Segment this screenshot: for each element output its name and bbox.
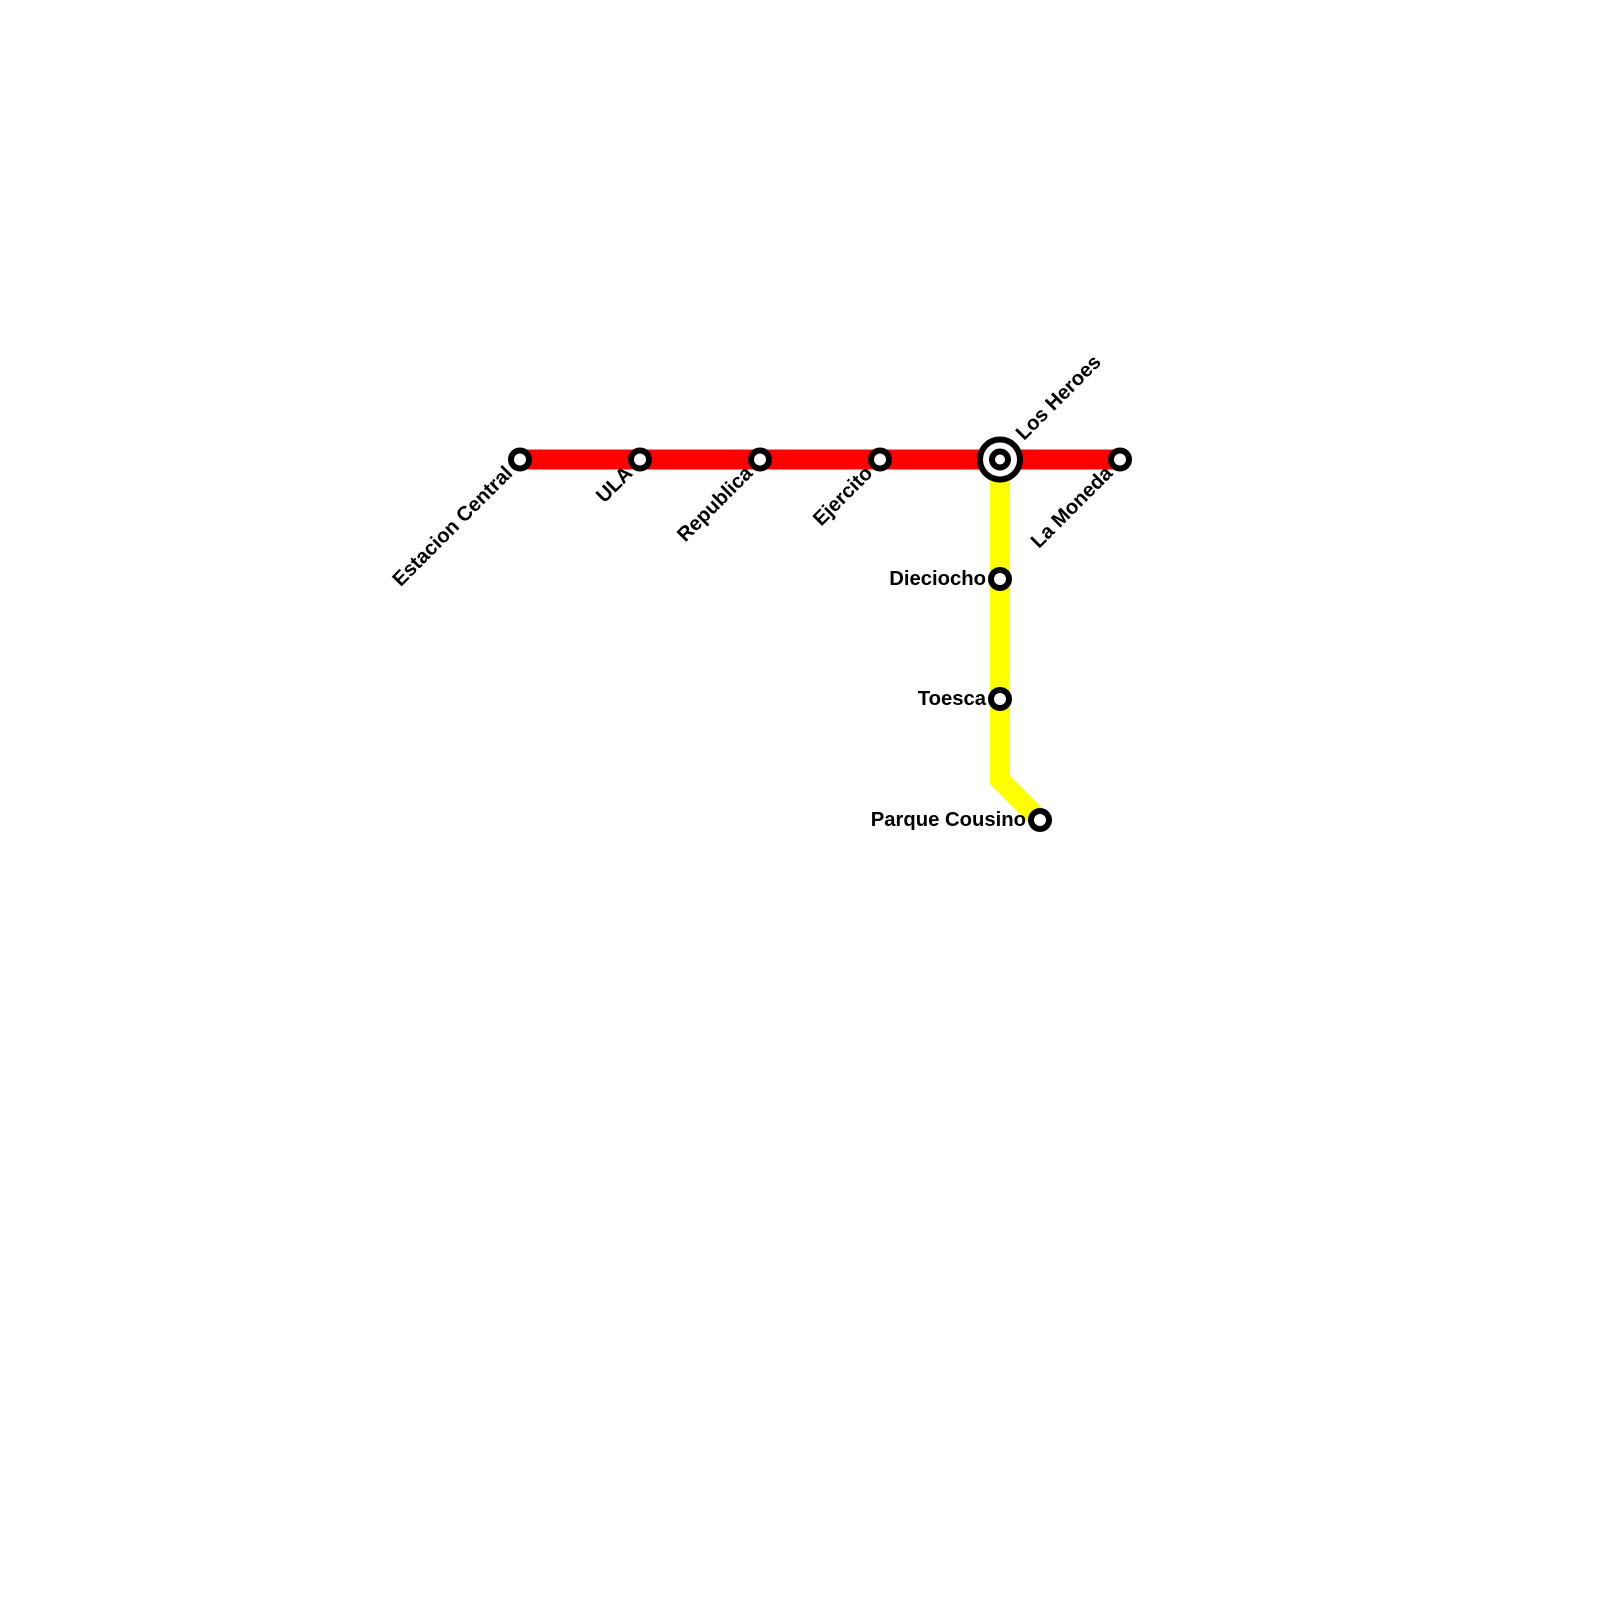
svg-text:Dieciocho: Dieciocho bbox=[889, 568, 986, 590]
svg-text:Toesca: Toesca bbox=[918, 688, 987, 710]
svg-text:Parque Cousino: Parque Cousino bbox=[871, 809, 1026, 831]
